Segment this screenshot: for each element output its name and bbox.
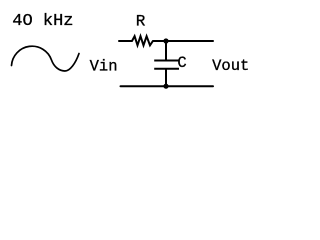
svg-text:C: C bbox=[177, 54, 186, 72]
svg-text:4O kHz: 4O kHz bbox=[12, 12, 73, 31]
svg-text:R: R bbox=[136, 13, 146, 31]
capacitor C top plate bbox=[154, 60, 179, 62]
wire junction to capacitor bbox=[165, 41, 167, 60]
svg-text:Vin: Vin bbox=[90, 57, 118, 75]
junction node top bbox=[163, 38, 168, 43]
sine source V1 bbox=[12, 46, 80, 71]
wire top-right bbox=[153, 40, 213, 42]
junction node bottom bbox=[163, 84, 168, 89]
svg-text:Vout: Vout bbox=[212, 57, 249, 75]
resistor R bbox=[132, 36, 153, 45]
wire top-left bbox=[119, 40, 132, 42]
wire bottom bbox=[121, 85, 214, 87]
wire capacitor to bottom bbox=[165, 69, 167, 86]
capacitor C bottom plate bbox=[154, 68, 179, 70]
